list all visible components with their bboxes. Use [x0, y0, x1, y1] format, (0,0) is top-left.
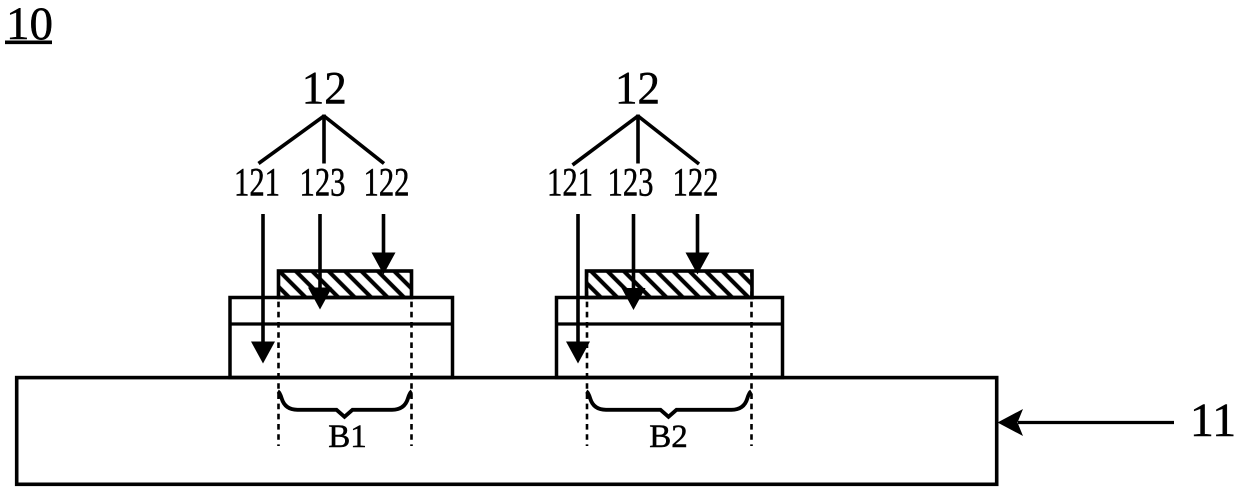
svg-text:B2: B2 — [649, 419, 688, 455]
svg-text:123: 123 — [300, 160, 346, 205]
arrow 123 head (right group) — [622, 288, 646, 310]
leader arrow to substrate 11: head — [998, 409, 1024, 436]
svg-text:12: 12 — [302, 62, 347, 114]
arrow 122 head (right group) — [686, 253, 710, 275]
svg-text:B1: B1 — [328, 419, 367, 455]
brace B1 — [278, 391, 412, 417]
svg-text:121: 121 — [547, 160, 593, 205]
leader arrow to substrate 11: shaft — [1018, 421, 1174, 424]
arrow 123 shaft (right group) — [632, 214, 636, 296]
inner horizontal line (right device) — [557, 322, 783, 325]
fan line left (12 to 121, right group) — [573, 116, 639, 165]
svg-text:121: 121 — [234, 160, 280, 205]
arrow 122 shaft (left group) — [382, 214, 386, 261]
electrode 122 hatched rectangle (right device) — [587, 271, 753, 298]
arrow 121 shaft (right group) — [576, 214, 580, 350]
svg-text:122: 122 — [673, 160, 719, 205]
arrow 122 head (left group) — [372, 253, 396, 275]
svg-text:123: 123 — [608, 160, 654, 205]
underline of label 10 — [5, 40, 52, 44]
substrate 11 rectangle — [17, 378, 997, 485]
fan line right (12 to 122, right group) — [638, 116, 699, 164]
arrow 121 shaft (left group) — [261, 214, 265, 350]
fan line right (12 to 122, left group) — [324, 116, 384, 164]
arrow 123 shaft (left group) — [318, 214, 322, 296]
body rectangle (left device, layers 121/123) — [230, 298, 453, 378]
arrow 121 head (left group) — [251, 342, 275, 364]
brace B2 — [586, 391, 751, 417]
arrow 122 shaft (right group) — [696, 214, 700, 261]
dashed line right (left device, B1 extent) — [410, 271, 413, 446]
dashed line right (right device, B2 extent) — [750, 271, 753, 446]
arrow 121 head (right group) — [566, 342, 590, 364]
arrow 123 head (left group) — [308, 288, 332, 310]
fan line middle (12 to 123, left group) — [322, 115, 326, 164]
svg-text:11: 11 — [1190, 394, 1236, 447]
svg-text:12: 12 — [615, 63, 660, 115]
svg-text:122: 122 — [364, 160, 410, 205]
fan line left (12 to 121, left group) — [259, 116, 325, 164]
dashed line left (left device, B1 extent) — [277, 271, 280, 446]
electrode 122 hatched rectangle (left device) — [279, 271, 412, 298]
dashed line left (right device, B2 extent) — [586, 271, 589, 446]
fan line middle (12 to 123, right group) — [636, 115, 640, 164]
body rectangle (right device, layers 121/123) — [557, 298, 783, 378]
inner horizontal line (left device) — [230, 322, 453, 325]
